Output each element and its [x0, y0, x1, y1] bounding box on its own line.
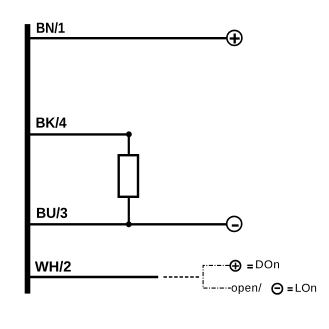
label open/: [232, 283, 262, 294]
wire dash-dot bracket: [203, 265, 231, 288]
wire resistor vertical: [128, 134, 130, 224]
wire BN/1: [28, 37, 226, 39]
label = LOn: [288, 287, 293, 291]
wire BU/3: [28, 223, 226, 225]
wire WH/2: [28, 276, 158, 278]
label = DOn: [247, 265, 253, 269]
label WH/2: [35, 261, 71, 272]
terminal minus L-: [227, 216, 242, 231]
symbol plus small DOn: [230, 261, 240, 271]
label BU/3: [37, 207, 67, 218]
wire BK/4: [28, 133, 129, 135]
supply rail bar: [25, 24, 31, 294]
label BK/4: [37, 117, 67, 128]
node junction bottom: [126, 221, 132, 227]
symbol minus small LOn: [272, 284, 282, 294]
wire dashed output: [164, 276, 201, 278]
node junction top: [126, 131, 132, 137]
label BN/1: [37, 22, 65, 33]
terminal plus L+: [227, 30, 242, 45]
resistor load: [119, 155, 138, 197]
